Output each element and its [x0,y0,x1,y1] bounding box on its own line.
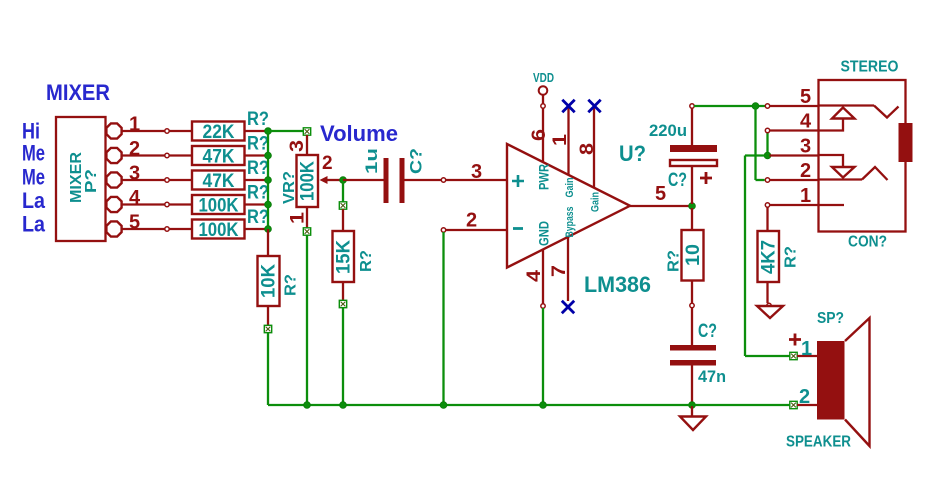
junction stereo pin5 branch [752,103,759,110]
connector pin 4 tip circle [165,202,169,206]
svg-text:4: 4 [129,187,141,209]
svg-text:100K: 100K [199,220,239,241]
svg-text:CON?: CON? [848,234,887,251]
capacitor C? (1u) right plate [400,158,405,203]
connector pin 3 tip circle [165,178,169,182]
junction summing bus row 4 [265,201,272,208]
wire VR? pin 1 to ground bus [306,235,308,405]
wire to speaker pin 1 [745,355,790,357]
speaker plus sign [789,334,801,346]
capacitor C? (47n) bottom plate [670,360,716,366]
op-amp pin 6 tip circle [541,104,545,108]
svg-text:R?: R? [783,246,800,268]
resistor R? (10) body [682,230,704,281]
svg-text:LM386: LM386 [584,272,651,297]
svg-text:10: 10 [683,244,704,266]
wire wiper node down [342,180,344,202]
svg-text:Bypass: Bypass [564,207,576,238]
potentiometer VR? wiper arrow [320,176,328,184]
resistor R? 15K top lead [342,209,344,231]
wire down to speaker row [744,156,746,357]
op-amp pin 5 output lead [630,205,692,207]
jack pin4 internal L wire [819,119,844,131]
svg-text:100K: 100K [298,161,319,201]
resistor R? (100K) body [192,220,245,239]
wire op-amp pin 2 to ground bus [442,232,444,405]
junction ground bus at VR1 [304,402,311,409]
svg-text:VDD: VDD [533,70,554,85]
svg-text:R?: R? [358,250,375,272]
svg-text:R?: R? [247,109,269,130]
ground symbol at bus [680,417,706,431]
wire ground bus horizontal [268,404,790,406]
svg-text:5: 5 [800,86,811,108]
svg-text:15K: 15K [334,240,355,274]
svg-text:GND: GND [536,221,552,246]
op-amp U1 pin 3 tip circle [441,178,445,182]
svg-text:47K: 47K [203,171,235,192]
svg-text:P?: P? [83,169,100,193]
potentiometer VR? pin 1 lead [306,207,308,228]
resistor R? (10) top lead [691,208,693,230]
svg-text:2: 2 [466,210,477,232]
wire resistor 47K output stub [245,179,269,181]
junction output node [689,203,696,210]
wire pin3 node to left [745,154,765,156]
jack tip contact triangle (upper) [832,108,855,119]
op-amp U? minus input symbol [513,227,523,230]
op-amp U1 pin 2 lead [444,229,508,231]
wire R10 to C? 47n [691,308,693,346]
wire-end marker speaker pin 1 [790,352,797,359]
wire summing bus vertical [267,131,269,229]
svg-text:1: 1 [800,185,811,207]
connector pin 2 tip circle [165,153,169,157]
svg-text:47K: 47K [203,146,235,167]
junction summing bus row 1 [265,128,272,135]
connector pin 2 octagon [106,148,121,163]
jack pin5 switch contact [874,106,899,118]
capacitor C? (220u) negative plate [670,145,717,152]
connector pin 1 octagon [106,123,121,138]
connector pin 1 lead [122,130,192,132]
jack pin2 internal line [819,178,863,180]
resistor R? (10K) bottom lead [267,306,269,326]
jack pin3 internal line [819,155,844,167]
svg-text:MIXER: MIXER [46,80,110,105]
wire-end marker at 15K top [339,202,346,209]
connector CON? pin 3 lead [770,154,819,156]
op-amp U? triangle body [507,144,630,268]
svg-text:220u: 220u [649,121,687,140]
svg-text:1: 1 [801,338,812,360]
svg-text:C?: C? [698,321,717,342]
connector pin 5 lead [122,228,192,230]
svg-text:4K7: 4K7 [759,240,780,274]
svg-text:R?: R? [283,274,300,296]
wire branch to stereo pin 2 [756,179,765,181]
wire wiper node to C? 1u [343,179,384,181]
potentiometer VR? body [297,155,319,207]
ground symbol below 4K7 [757,306,783,318]
jack pin2 switch contact [862,167,888,180]
power VDD stub [542,95,544,104]
svg-text:3: 3 [129,163,140,185]
connector pin 3 lead [122,179,192,181]
resistor R? (4K7) bottom lead [766,282,768,303]
capacitor C? (220u) bottom lead [691,166,693,204]
junction ground bus at 15K [340,402,347,409]
capacitor C? (47n) top plate [670,345,716,351]
junction wiper node [340,177,347,184]
wire 15K bottom to ground bus [342,308,344,406]
svg-text:5: 5 [129,212,140,234]
svg-text:SPEAKER: SPEAKER [786,434,851,451]
junction stereo pin3 node [764,152,771,159]
svg-text:R?: R? [247,158,269,179]
wire-end marker at VR? pin 3 [303,128,310,135]
connector CON? pin 5 tip circle [765,104,769,108]
op-amp pin 8 lead [593,108,595,188]
svg-text:3: 3 [800,136,811,158]
wire resistor 100K output stub [245,203,269,205]
svg-text:1: 1 [129,114,140,136]
op-amp pin 6 lead [542,108,544,162]
svg-text:3: 3 [471,161,482,183]
resistor R? (15K) body [333,231,355,282]
junction summing bus row 5 [265,226,272,233]
wire resistor 47K output stub [245,154,269,156]
op-amp pin 4 lead [542,250,544,305]
connector CON? body box [819,80,906,232]
speaker pin 2 lead [797,404,817,406]
svg-text:Gain: Gain [590,192,602,212]
op-amp pin 7 lead [567,237,569,301]
svg-text:Me: Me [22,141,45,166]
capacitor C? (220u) top tip circle [690,104,694,108]
op-amp pin 1 lead [567,108,569,175]
resistor R? (10) bottom lead [691,281,693,304]
junction 47n ground node [689,402,696,409]
wire stereo pin1 down to 4K7 [766,207,768,231]
speaker SP? body [817,341,845,420]
wire-end marker at 10K bottom [264,325,271,332]
svg-text:SP?: SP? [817,310,844,327]
resistor R? (10K) body [258,256,280,306]
jack ring contact triangle (lower) [832,167,855,178]
wire resistor 22K output stub [245,130,269,132]
svg-text:Gain: Gain [564,177,576,197]
svg-text:2: 2 [322,153,333,174]
svg-text:3: 3 [287,140,308,152]
svg-text:C?: C? [407,148,426,174]
connector CON? pin 5 lead [770,105,819,107]
svg-text:10K: 10K [259,264,280,298]
junction ground bus at pin2 [440,402,447,409]
no-connect X on pin 8 [588,100,600,112]
connector CON? pin 2 lead [770,179,819,181]
svg-text:5: 5 [655,183,666,205]
wire resistor 100K output stub [245,228,269,230]
resistor R? (47K) body [192,171,245,190]
svg-text:2: 2 [129,138,140,160]
wire summing bus to VR? pin 3 [268,130,303,132]
wire-end marker at 15K bottom [339,300,346,307]
svg-text:100K: 100K [199,195,239,216]
connector pin 3 octagon [106,172,121,187]
svg-text:R?: R? [247,134,269,155]
connector P1 MIXER body [56,117,106,241]
svg-text:6: 6 [529,129,550,141]
connector pin 2 lead [122,154,192,156]
wire branch down to pin 2 row [754,106,756,180]
svg-text:VR?: VR? [281,171,298,204]
connector pin 5 octagon [106,221,121,236]
op-amp U1 pin 2 tip circle [441,228,445,232]
op-amp U? plus input symbol [512,175,524,187]
svg-text:1: 1 [288,212,309,224]
resistor R? (22K) body [192,122,245,141]
svg-text:1u: 1u [362,148,381,174]
wire C? 1u to op-amp pin 3 [405,179,508,181]
capacitor C? (220u) plus sign [700,172,712,184]
connector CON? pin 2 tip circle [765,178,769,182]
connector pin 4 octagon [106,197,121,212]
resistor R? (10K) top lead [267,229,269,256]
connector pin 1 tip circle [165,129,169,133]
svg-text:C?: C? [668,170,687,191]
no-connect X on pin 1 [562,100,574,112]
svg-text:4: 4 [800,111,812,133]
connector CON? pin 1 lead [770,204,819,206]
power VDD circle [539,86,548,95]
junction summing bus row 2 [265,152,272,159]
svg-text:U?: U? [619,141,646,166]
resistor R? (47K) body [192,146,245,165]
svg-text:R?: R? [666,250,683,272]
connector CON? pin 4 tip circle [765,128,769,132]
speaker pin 1 lead [797,355,817,357]
capacitor C? (220u) top lead [691,108,693,145]
wire output to stereo pin 5 [694,105,765,107]
resistor R? (100K) body [192,195,245,214]
ground symbol below 4K7 tip circle [767,303,771,307]
capacitor C? (1u) left plate [384,158,389,203]
wire op-amp pin 4 to ground bus [542,308,544,405]
wire stereo pin4 down to pin3 row [766,132,768,156]
svg-text:La: La [22,212,46,237]
resistor R? (15K) bottom lead [342,282,344,301]
wire-end marker at VR? pin 1 [303,228,310,235]
resistor R? (10) tip circle [690,303,694,307]
connector CON? pin 1 tip circle [765,203,769,207]
svg-text:Me: Me [22,165,45,190]
wire-end marker speaker pin 2 [790,401,797,408]
connector pin 5 tip circle [165,227,169,231]
resistor R? (4K7) body [758,231,780,282]
wire C? 47n to ground bus [691,366,693,406]
svg-text:47n: 47n [698,367,726,386]
svg-text:PWR: PWR [536,164,552,190]
svg-text:STEREO: STEREO [841,59,899,76]
jack pin1 internal line [819,204,845,206]
svg-text:R?: R? [247,207,269,228]
junction ground bus at pin4 [540,402,547,409]
svg-text:2: 2 [800,160,811,182]
svg-text:R?: R? [247,183,269,204]
svg-text:La: La [22,188,46,213]
capacitor C? (220u) positive plate [670,160,717,166]
svg-text:22K: 22K [203,122,235,143]
op-amp pin 4 tip circle [541,304,545,308]
connector pin 4 lead [122,203,192,205]
potentiometer VR? pin 3 lead [306,135,308,155]
svg-text:Volume: Volume [320,121,398,146]
connector CON? pin 4 lead [770,129,819,131]
wire wiper to node [328,179,344,181]
jack pin5 internal line [819,104,875,106]
ground symbol stub at bus [691,405,693,416]
svg-text:2: 2 [799,386,810,408]
wire 10K bottom to ground bus [267,333,269,406]
no-connect X on pin 7 [562,301,574,313]
junction summing bus row 3 [265,177,272,184]
connector CON? jack sleeve bar [899,123,913,162]
speaker SP? cone [845,318,870,446]
